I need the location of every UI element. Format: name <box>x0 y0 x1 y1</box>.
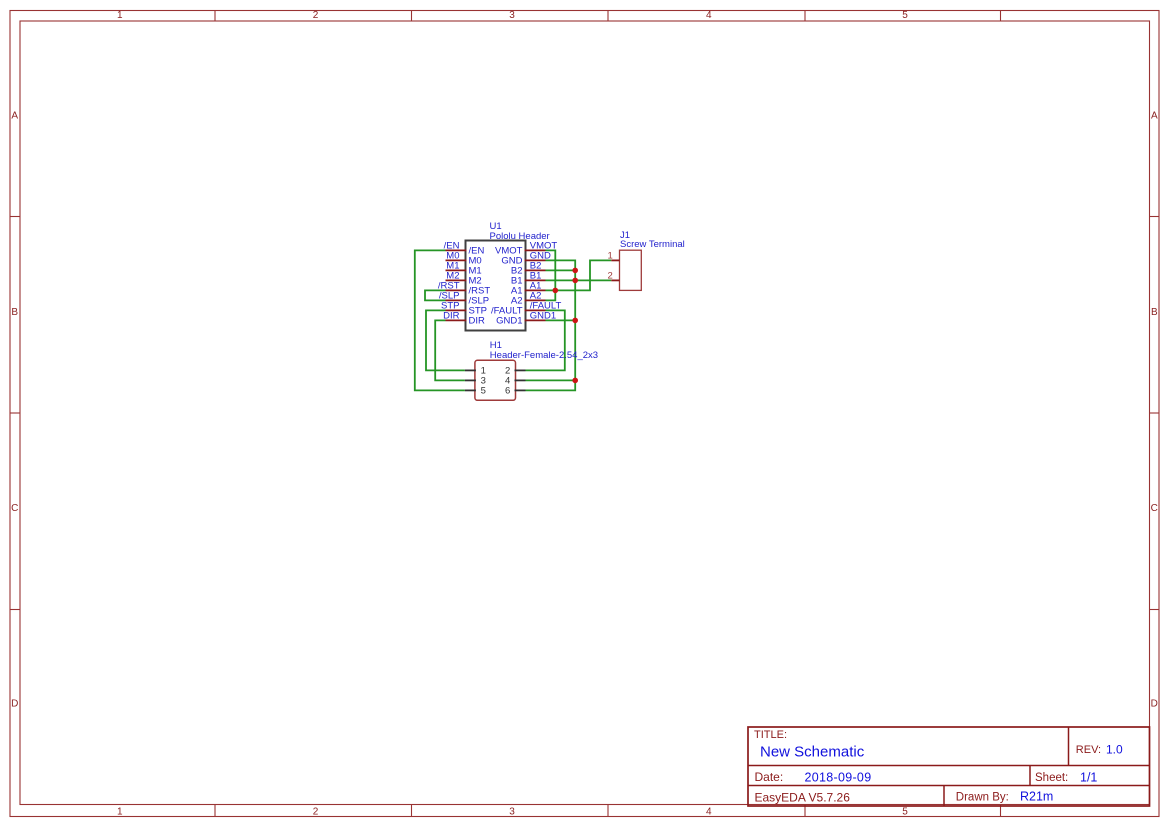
junction at 575.2,320.4 <box>572 318 578 324</box>
svg-text:A: A <box>1151 110 1158 121</box>
wire B1 to J1 pin2 <box>546 279 612 281</box>
svg-text:1/1: 1/1 <box>1080 770 1097 784</box>
U1 left pin /EN <box>446 249 467 251</box>
J1 pin 1 stub <box>611 259 619 261</box>
svg-text:REV:: REV: <box>1076 744 1101 756</box>
svg-text:R21m: R21m <box>1020 790 1053 804</box>
svg-text:D: D <box>1151 698 1158 709</box>
junction at 575.2,280.4 <box>572 278 578 284</box>
U1 right pin GND <box>525 259 546 261</box>
svg-text:4: 4 <box>706 807 712 818</box>
svg-text:5: 5 <box>902 10 908 21</box>
svg-text:1: 1 <box>117 10 123 21</box>
svg-text:5: 5 <box>481 386 486 397</box>
U1 left pin M2 <box>446 279 467 281</box>
frame column tick (top) <box>1000 11 1002 22</box>
wire A1 to J1 pin1 <box>546 260 612 290</box>
title block row divider 1 <box>748 765 1150 767</box>
U1 left pin DIR <box>446 319 467 321</box>
U1 left pin M1 <box>446 269 467 271</box>
svg-text:D: D <box>11 698 18 709</box>
svg-text:Header-Female-2.54_2x3: Header-Female-2.54_2x3 <box>490 350 598 361</box>
title block outline <box>748 727 1150 806</box>
svg-text:GND1: GND1 <box>530 311 556 322</box>
U1 left pin STP <box>446 309 467 311</box>
frame column tick (bottom) <box>214 805 216 817</box>
op-amp U1 body (Pololu Header) <box>466 241 526 331</box>
junction at 575.2,380.4 <box>572 378 578 384</box>
svg-text:Drawn By:: Drawn By: <box>956 792 1009 804</box>
J1 pin 2 stub <box>611 279 619 281</box>
svg-text:C: C <box>11 503 18 514</box>
U1 right pin B1 <box>525 279 546 281</box>
svg-text:EasyEDA V5.7.26: EasyEDA V5.7.26 <box>755 791 851 805</box>
frame column tick (top) <box>214 11 216 22</box>
wire /RST to /SLP <box>425 290 446 300</box>
H1 pin 4 stub <box>515 379 526 381</box>
svg-text:5: 5 <box>902 807 908 818</box>
frame row tick (right) <box>1150 609 1160 611</box>
junction at 575.2,270.4 <box>572 268 578 274</box>
frame column tick (top) <box>804 11 806 22</box>
frame row tick (right) <box>1150 412 1160 414</box>
frame row tick (left) <box>10 216 20 218</box>
title block row divider 2 <box>748 785 1150 787</box>
frame row tick (left) <box>10 609 20 611</box>
svg-text:DIR: DIR <box>469 316 486 327</box>
U1 right pin GND1 <box>525 319 546 321</box>
svg-text:2: 2 <box>608 271 613 282</box>
wire GND1 to GND net <box>546 319 576 321</box>
svg-text:2: 2 <box>313 807 319 818</box>
svg-text:TITLE:: TITLE: <box>754 729 787 741</box>
svg-text:3: 3 <box>509 807 515 818</box>
svg-text:Sheet:: Sheet: <box>1035 772 1068 784</box>
wire /EN to H1 pin5 <box>415 250 465 390</box>
H1 pin 3 stub <box>465 379 476 381</box>
U1 right pin VMOT <box>525 249 546 251</box>
frame column tick (top) <box>411 11 413 22</box>
frame column tick (bottom) <box>607 805 609 817</box>
wire /FAULT to H1 pin2 <box>526 310 565 370</box>
frame column tick (bottom) <box>1000 805 1002 817</box>
frame row tick (left) <box>10 412 20 414</box>
wire H1 pin4 to GND net <box>526 379 576 381</box>
connector J1 body (Screw Terminal) <box>620 250 642 290</box>
frame column tick (bottom) <box>411 805 413 817</box>
wire STP to H1 pin1 <box>426 310 465 370</box>
title block DrawnBy divider <box>943 786 945 807</box>
svg-text:2018-09-09: 2018-09-09 <box>805 770 872 784</box>
svg-text:3: 3 <box>509 10 515 21</box>
svg-text:2: 2 <box>313 10 319 21</box>
svg-text:1: 1 <box>117 807 123 818</box>
svg-text:New Schematic: New Schematic <box>760 744 865 761</box>
connector H1 body (Header-Female-2.54_2x3) <box>475 360 516 400</box>
svg-text:C: C <box>1151 503 1158 514</box>
wire DIR to H1 pin3 <box>435 320 465 380</box>
U1 left pin /SLP <box>446 299 467 301</box>
svg-text:B: B <box>11 307 18 318</box>
svg-text:4: 4 <box>706 10 712 21</box>
frame column tick (top) <box>607 11 609 22</box>
svg-text:Screw Terminal: Screw Terminal <box>620 239 685 250</box>
U1 right pin /FAULT <box>525 309 546 311</box>
wire GND to H1 pin6 <box>526 260 576 390</box>
svg-text:1.0: 1.0 <box>1106 743 1123 757</box>
H1 pin 1 stub <box>465 369 476 371</box>
junction at 555.3,290.4 <box>553 288 559 294</box>
svg-text:GND1: GND1 <box>496 316 522 327</box>
H1 pin 2 stub <box>515 369 526 371</box>
title block Sheet divider <box>1029 766 1031 786</box>
wire B2 to GND net <box>546 269 576 271</box>
H1 pin 6 stub <box>515 389 526 391</box>
wire VMOT to A2 <box>546 250 556 300</box>
title block REV divider <box>1068 727 1070 766</box>
U1 right pin A1 <box>525 289 546 291</box>
U1 right pin A2 <box>525 299 546 301</box>
H1 pin 5 stub <box>465 389 476 391</box>
svg-text:Date:: Date: <box>755 770 784 784</box>
svg-text:1: 1 <box>608 251 613 262</box>
svg-text:B: B <box>1151 307 1158 318</box>
U1 left pin M0 <box>446 259 467 261</box>
svg-text:6: 6 <box>505 386 510 397</box>
frame row tick (right) <box>1150 216 1160 218</box>
frame column tick (bottom) <box>804 805 806 817</box>
U1 right pin B2 <box>525 269 546 271</box>
U1 left pin /RST <box>446 289 467 291</box>
svg-text:A: A <box>11 110 18 121</box>
svg-text:DIR: DIR <box>443 311 460 322</box>
